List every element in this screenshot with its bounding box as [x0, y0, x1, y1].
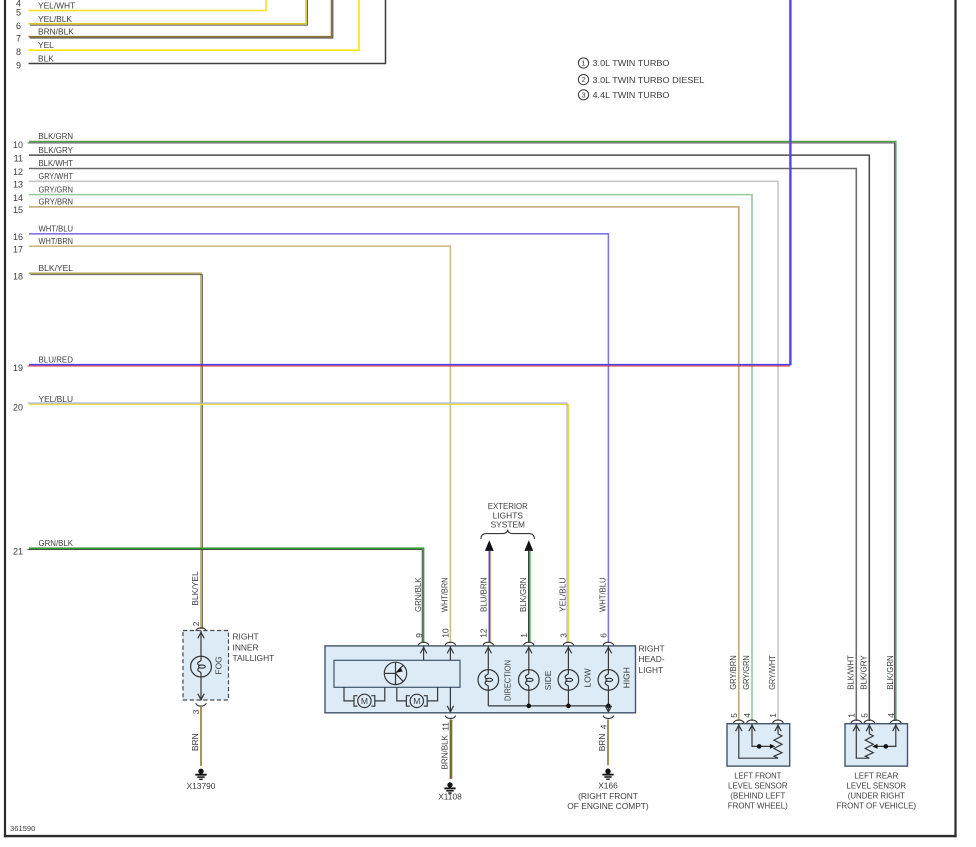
sensor pin 5 connector	[859, 713, 874, 731]
taillight internal wire	[198, 631, 204, 701]
taillight label	[233, 632, 275, 663]
wire 18 BLK/YEL	[29, 273, 202, 629]
svg-text:19: 19	[13, 363, 23, 373]
svg-text:9: 9	[414, 633, 424, 638]
svg-text:11: 11	[14, 153, 23, 163]
wire label YEL/WHT	[38, 1, 75, 11]
wire 14 GRY/GRN	[29, 195, 752, 721]
svg-text:WHT/BLU: WHT/BLU	[597, 578, 607, 613]
circuit number 16	[13, 232, 23, 242]
wire label BLK/YEL	[39, 263, 74, 273]
wire label GRN/BLK	[39, 538, 74, 548]
wire label BLK/GRN	[39, 131, 74, 141]
junction	[606, 704, 611, 709]
svg-text:GRN/BLK: GRN/BLK	[39, 538, 74, 548]
svg-text:BLK/GRN: BLK/GRN	[885, 655, 895, 690]
wire 17 WHT/BRN	[29, 246, 450, 642]
circuit number 10	[13, 140, 23, 150]
svg-text:X166: X166	[598, 781, 618, 791]
wire BRN to ground X13790	[190, 707, 201, 766]
svg-text:BRN: BRN	[190, 733, 200, 751]
svg-text:GRY/BRN: GRY/BRN	[728, 655, 738, 690]
headlight pin 9 connector	[414, 633, 429, 645]
left rear level sensor box	[845, 724, 908, 766]
wire label WHT/BRN	[440, 578, 450, 613]
svg-text:HIGH: HIGH	[622, 667, 632, 688]
arrow into pin 9	[420, 647, 426, 653]
sensor pin 4 connector	[886, 713, 901, 731]
wire lamp LOW to bus	[567, 690, 569, 706]
svg-text:YEL/BLK: YEL/BLK	[38, 14, 72, 24]
wire label BLK/YEL	[190, 571, 200, 606]
svg-text:HEAD-: HEAD-	[639, 654, 665, 664]
arrow into pin 12	[485, 647, 491, 653]
circuit number 5	[16, 8, 21, 18]
svg-text:EXTERIOR: EXTERIOR	[488, 501, 528, 511]
sensor internal wiring (left front)	[739, 724, 778, 759]
wire 10 BLK/GRN	[28, 142, 896, 722]
circuit number 14	[13, 193, 23, 203]
headlight pin 4 connector	[598, 716, 613, 730]
note 2: 3.0L TWIN TURBO DIESEL	[578, 75, 704, 85]
wire lamp DIRECTION to bus	[487, 690, 489, 706]
circuit number 12	[13, 167, 23, 177]
wire label GRY/GRN	[741, 655, 751, 690]
svg-text:WHT/BRN: WHT/BRN	[440, 578, 450, 613]
wire label BLK/GRN	[885, 655, 895, 690]
svg-text:6: 6	[599, 633, 609, 638]
circuit number 19	[13, 363, 23, 373]
svg-text:3: 3	[582, 90, 586, 99]
svg-text:FOG: FOG	[213, 656, 223, 674]
svg-text:4: 4	[598, 724, 608, 729]
arrow to exterior lights system (BLU/BRN)	[485, 540, 494, 551]
svg-text:BLK/GRY: BLK/GRY	[39, 145, 74, 155]
wire pin to lamp DIRECTION	[487, 646, 489, 670]
svg-text:M: M	[361, 696, 368, 706]
internal module rectangle	[334, 660, 460, 687]
svg-text:2: 2	[582, 75, 586, 84]
sensor label (left rear)	[837, 770, 917, 810]
headlight pin 6 connector	[599, 633, 614, 645]
svg-text:15: 15	[13, 205, 23, 215]
svg-text:4.4L TWIN TURBO: 4.4L TWIN TURBO	[593, 90, 671, 100]
brace	[481, 530, 534, 540]
svg-text:YEL/WHT: YEL/WHT	[38, 1, 75, 11]
svg-text:1: 1	[582, 59, 586, 68]
potentiometer resistor (left front)	[774, 734, 782, 758]
svg-text:LEFT REAR: LEFT REAR	[854, 770, 898, 780]
svg-text:SYSTEM: SYSTEM	[491, 520, 525, 530]
svg-text:GRY/GRN: GRY/GRN	[741, 655, 751, 690]
potentiometer resistor (left rear)	[865, 734, 873, 758]
ground X13790	[187, 769, 216, 791]
svg-text:12: 12	[13, 167, 23, 177]
diagram number 361590	[10, 824, 35, 833]
wire pin 10 to module	[449, 646, 451, 660]
circuit number 17	[13, 245, 23, 255]
svg-text:5: 5	[16, 8, 21, 18]
motor M (left leveling motor)	[344, 687, 385, 707]
svg-text:BLK/GRY: BLK/GRY	[858, 655, 868, 690]
wire 9 BLK	[29, 0, 386, 64]
svg-text:3.0L TWIN TURBO DIESEL: 3.0L TWIN TURBO DIESEL	[593, 75, 705, 85]
headlight pin 11 connector	[440, 716, 455, 731]
circuit number 18	[13, 272, 23, 282]
wire 8 YEL	[29, 0, 360, 50]
svg-text:WHT/BRN: WHT/BRN	[39, 236, 74, 246]
wire label BLU/BRN	[478, 578, 488, 613]
svg-text:BLK/WHT: BLK/WHT	[39, 158, 74, 168]
svg-text:8: 8	[16, 47, 21, 57]
sensor pin 4 connector	[742, 713, 757, 731]
svg-text:GRN/BLK: GRN/BLK	[413, 577, 423, 612]
wire lamp SIDE to bus	[528, 690, 530, 706]
wire label BRN/BLK	[38, 27, 74, 37]
circuit number 7	[16, 34, 21, 44]
svg-text:BLK: BLK	[38, 54, 54, 64]
svg-text:LIGHT: LIGHT	[639, 665, 664, 675]
circuit number 11	[14, 153, 23, 163]
wire label WHT/BRN	[39, 236, 74, 246]
arrow into pin 10	[447, 647, 453, 653]
arrow into pin 3	[565, 647, 571, 653]
svg-text:5: 5	[859, 713, 869, 718]
svg-text:5: 5	[729, 713, 739, 718]
sensor pin 1 connector	[768, 713, 783, 731]
svg-text:10: 10	[13, 140, 23, 150]
wire 12 BLK/WHT	[29, 169, 856, 722]
circuit number 21	[13, 547, 23, 557]
wire lamp HIGH to bus	[607, 690, 609, 706]
svg-text:BLU/BRN: BLU/BRN	[478, 578, 488, 613]
wire 15 GRY/BRN	[29, 207, 739, 721]
circuit number 15	[13, 205, 23, 215]
svg-text:1: 1	[519, 633, 529, 638]
right inner taillight box	[183, 631, 229, 701]
wire 5 YEL/WHT	[29, 0, 267, 11]
wire 21 GRN/BLK	[28, 548, 424, 642]
svg-text:1: 1	[768, 713, 778, 718]
svg-text:GRY/GRN: GRY/GRN	[39, 184, 74, 194]
svg-text:LEVEL SENSOR: LEVEL SENSOR	[728, 781, 788, 791]
wire label YEL	[38, 40, 54, 50]
sensor pin 5 connector	[729, 713, 744, 731]
wire label BLK	[38, 54, 54, 64]
sensor pin 1 connector	[846, 713, 861, 731]
svg-text:3: 3	[559, 633, 569, 638]
junction	[566, 704, 571, 709]
note 1: 3.0L TWIN TURBO	[578, 58, 670, 68]
svg-text:7: 7	[16, 34, 21, 44]
svg-text:361590: 361590	[10, 824, 35, 833]
svg-text:16: 16	[13, 232, 23, 242]
wire 20 YEL/BLU	[28, 403, 569, 643]
svg-text:4: 4	[886, 713, 896, 718]
wire label BLK/WHT	[845, 655, 855, 690]
wire pin 9 to module	[423, 646, 425, 660]
wire label GRY/GRN	[39, 184, 74, 194]
svg-text:X1108: X1108	[438, 792, 462, 802]
note 3: 4.4L TWIN TURBO	[578, 90, 670, 100]
svg-text:DIRECTION: DIRECTION	[502, 660, 512, 701]
svg-text:M: M	[413, 696, 420, 706]
svg-text:INNER: INNER	[233, 642, 259, 652]
circuit number 4 (cut off at top)	[16, 0, 21, 9]
circuit number 6	[16, 21, 21, 31]
wire label GRY/BRN	[39, 197, 74, 207]
svg-text:GRY/BRN: GRY/BRN	[39, 197, 74, 207]
wire label GRN/BLK	[413, 577, 423, 612]
svg-text:3: 3	[191, 709, 201, 714]
svg-text:18: 18	[13, 272, 23, 282]
wire label BLK/GRN	[518, 578, 528, 613]
ground X1108	[438, 782, 462, 801]
arrow into pin 1	[526, 647, 532, 653]
svg-text:BLU/RED: BLU/RED	[39, 354, 74, 364]
wire pin to lamp LOW	[567, 646, 569, 670]
ground bus inside headlight	[488, 705, 608, 707]
svg-text:X13790: X13790	[187, 781, 216, 791]
lamp FOG	[191, 656, 224, 677]
lamp HIGH	[598, 667, 631, 690]
svg-text:FRONT OF VEHICLE): FRONT OF VEHICLE)	[837, 801, 917, 811]
svg-text:3.0L TWIN TURBO: 3.0L TWIN TURBO	[593, 58, 671, 68]
svg-text:OF ENGINE COMPT): OF ENGINE COMPT)	[567, 801, 649, 811]
svg-text:BLK/GRN: BLK/GRN	[518, 578, 528, 613]
headlight label	[639, 644, 665, 675]
svg-text:4: 4	[742, 713, 752, 718]
svg-text:13: 13	[13, 180, 23, 190]
lamp LOW	[558, 668, 592, 690]
svg-text:LEFT FRONT: LEFT FRONT	[734, 770, 781, 780]
svg-text:12: 12	[479, 628, 489, 638]
wire label BLU/RED	[39, 354, 74, 364]
svg-text:17: 17	[13, 245, 23, 255]
svg-text:6: 6	[16, 21, 21, 31]
svg-text:LEVEL SENSOR: LEVEL SENSOR	[847, 781, 907, 791]
wire BLK/GRN to headlight pin 1	[529, 551, 530, 643]
circuit number 8	[16, 47, 21, 57]
wire pin to lamp SIDE	[528, 646, 530, 670]
wire BLU/BRN to headlight pin 12	[489, 551, 490, 643]
svg-text:SIDE: SIDE	[543, 670, 553, 690]
wire BRN/BLK to ground X1108	[439, 720, 451, 779]
junction	[527, 704, 532, 709]
sensor internal wiring (left rear)	[856, 724, 896, 759]
svg-text:BLK/YEL: BLK/YEL	[39, 263, 74, 273]
wire label GRY/WHT	[39, 171, 74, 181]
svg-text:BLK/YEL: BLK/YEL	[190, 571, 200, 606]
wire BRN to ground X166	[597, 720, 608, 766]
wire 11 BLK/GRY	[29, 155, 869, 721]
node EXTERIOR LIGHTS SYSTEM label	[488, 501, 528, 530]
svg-text:LOW: LOW	[582, 668, 592, 687]
svg-text:20: 20	[13, 403, 23, 413]
sensor label (left front)	[728, 770, 788, 810]
svg-text:BRN/BLK: BRN/BLK	[439, 735, 449, 770]
wire label GRY/BRN	[728, 655, 738, 690]
headlight pin 12 connector	[479, 628, 494, 645]
headlight pin 1 connector	[519, 633, 534, 645]
wiper arrow (left rear)	[872, 744, 888, 749]
arrow to exterior lights system (BLK/GRN)	[524, 540, 533, 551]
wire 19 BLU/RED	[28, 0, 791, 366]
svg-text:YEL/BLU: YEL/BLU	[39, 394, 74, 404]
svg-text:2: 2	[191, 621, 201, 626]
svg-text:21: 21	[13, 547, 23, 557]
svg-text:YEL: YEL	[38, 40, 54, 50]
lamp DIRECTION	[478, 660, 512, 701]
wiper arrow (left front)	[757, 744, 775, 749]
svg-text:10: 10	[441, 628, 451, 638]
ground X166	[567, 769, 649, 812]
svg-text:BRN/BLK: BRN/BLK	[38, 27, 74, 37]
left front level sensor box	[727, 724, 790, 766]
svg-text:WHT/BLU: WHT/BLU	[39, 224, 74, 234]
svg-text:1: 1	[846, 713, 856, 718]
svg-text:TAILLIGHT: TAILLIGHT	[233, 653, 275, 663]
circuit number 13	[13, 180, 23, 190]
svg-text:9: 9	[16, 61, 21, 71]
circuit number 20	[13, 403, 23, 413]
wire label YEL/BLU	[557, 578, 567, 613]
wire label BLK/GRY	[39, 145, 74, 155]
lamp SIDE	[519, 670, 553, 691]
svg-text:BLK/WHT: BLK/WHT	[845, 655, 855, 690]
svg-text:BRN: BRN	[597, 734, 607, 752]
wire label WHT/BLU	[39, 224, 74, 234]
wire label GRY/WHT	[767, 655, 777, 690]
headlight pin 3 connector	[559, 633, 574, 645]
headlight pin 10 connector	[441, 628, 456, 645]
svg-text:BLK/GRN: BLK/GRN	[39, 131, 74, 141]
connector pin 2 (taillight)	[191, 621, 206, 631]
connector pin 3 (taillight)	[191, 703, 206, 714]
svg-text:(RIGHT FRONT: (RIGHT FRONT	[578, 791, 638, 801]
wire 13 GRY/WHT	[29, 181, 778, 721]
wire module to pin 11	[447, 687, 453, 712]
svg-text:GRY/WHT: GRY/WHT	[767, 655, 777, 690]
wire 6 YEL/BLK	[29, 0, 308, 25]
svg-text:11: 11	[440, 722, 450, 731]
svg-text:RIGHT: RIGHT	[233, 632, 259, 642]
svg-text:(BEHIND LEFT: (BEHIND LEFT	[730, 791, 785, 801]
wire label WHT/BLU	[597, 578, 607, 613]
wire label BLK/WHT	[39, 158, 74, 168]
wire bus to pin 4	[605, 706, 611, 712]
wire 16 WHT/BLU	[29, 234, 608, 643]
motor M (right leveling motor)	[397, 687, 438, 707]
right headlight box	[325, 646, 636, 713]
transistor symbol (leveling control)	[384, 662, 406, 684]
wire pin to lamp HIGH	[607, 646, 609, 670]
svg-text:YEL/BLU: YEL/BLU	[557, 578, 567, 613]
svg-text:FRONT WHEEL): FRONT WHEEL)	[728, 801, 788, 811]
wire label YEL/BLK	[38, 14, 72, 24]
wire 7 BRN/BLK	[29, 0, 333, 38]
arrow into pin 6	[605, 647, 611, 653]
svg-text:14: 14	[13, 193, 23, 203]
svg-text:GRY/WHT: GRY/WHT	[39, 171, 74, 181]
circuit number 9	[16, 61, 21, 71]
wire label YEL/BLU	[39, 394, 74, 404]
svg-text:RIGHT: RIGHT	[639, 644, 665, 654]
svg-text:(UNDER RIGHT: (UNDER RIGHT	[848, 791, 905, 801]
wire label BLK/GRY	[858, 655, 868, 690]
